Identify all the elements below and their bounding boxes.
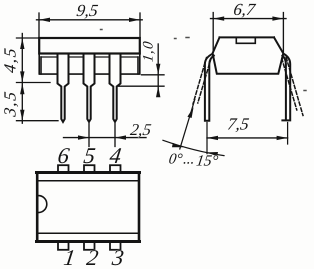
pin label 5: [82, 143, 97, 168]
plan view pin 3 stub: [110, 242, 121, 250]
angle arc right arrow: [207, 152, 218, 156]
dimension 4,5 bottom arrow: [20, 71, 24, 82]
end view body notch: [236, 37, 255, 43]
plan view bottom seam line: [38, 232, 138, 234]
side view dimension 9,5 line: [37, 19, 143, 21]
angle label dots: [182, 152, 195, 168]
side view dimension 9,5 label: [75, 1, 99, 20]
side view pin 1 (wide+narrow): [58, 54, 69, 122]
dimension 6,7 label: [232, 0, 257, 19]
angle ray arrowhead: [187, 107, 193, 118]
svg-text:1,0: 1,0: [141, 40, 157, 63]
angle arc: [163, 140, 224, 155]
side view base ledge line: [41, 56, 138, 58]
side view left end wall: [39, 54, 41, 75]
end view right pin splayed dashed lines: [282, 58, 303, 116]
end view body outline: [213, 37, 284, 73]
pin label 3: [110, 245, 126, 269]
svg-text:6,7: 6,7: [232, 0, 257, 19]
side view pin 3 (wide+narrow): [110, 54, 121, 122]
svg-text:0°: 0°: [168, 152, 184, 168]
plan view pin 6 stub: [58, 165, 69, 172]
dimension 1,0 upper arrow: [156, 64, 160, 75]
plan view pin 1 stub: [58, 242, 69, 250]
dimension 7,5 label: [226, 115, 250, 134]
side view left dimension line: [21, 34, 23, 124]
dimension 3,5 label: [1, 89, 20, 119]
angle label 15: [195, 153, 219, 170]
side view pin 2 (wide+narrow): [84, 54, 95, 122]
pin label 4: [108, 143, 123, 168]
dimension 1,0 lower arrow: [156, 86, 160, 97]
plan view top seam line: [38, 180, 138, 182]
angle arc left arrow: [172, 143, 183, 147]
scan specks: [101, 30, 307, 91]
side view base web line: [40, 73, 139, 75]
dimension 6,7 right arrow: [272, 16, 283, 20]
end view 7,5 dimension line: [207, 137, 288, 139]
plan view pin1 index notch: [38, 196, 47, 213]
end view right pin: [282, 54, 290, 121]
dimension 4,5 label: [1, 45, 20, 74]
end view 7,5 right pin extension: [287, 123, 289, 145]
dimension 2,5 label: [129, 120, 152, 139]
angle 0 degree ray (left pin extension): [206, 123, 208, 154]
svg-text:4,5: 4,5: [1, 45, 20, 74]
pin label 2: [85, 245, 100, 269]
end view dimension 6,7 extension lines: [213, 13, 283, 53]
angle 15 degree ray: [180, 100, 195, 150]
end view left pin splayed dashed lines: [193, 58, 211, 105]
dimension 3,5 top arrow: [20, 83, 24, 94]
dimension 2,5 left arrow: [78, 135, 89, 139]
svg-text:...: ...: [182, 152, 195, 168]
side view left extension lines for 4,5 and 3,5: [17, 38, 59, 121]
side view package body: [39, 38, 140, 54]
end view dimension 6,7 line: [211, 18, 287, 20]
dimension 3,5 bottom arrow: [20, 110, 24, 121]
svg-text:2,5: 2,5: [129, 120, 152, 139]
pin label 1: [62, 245, 77, 269]
svg-text:9,5: 9,5: [75, 1, 99, 20]
side view right end wall: [138, 54, 140, 75]
svg-text:15°: 15°: [195, 153, 219, 170]
dimension 1,0 label: [141, 40, 157, 63]
svg-text:7,5: 7,5: [226, 115, 250, 134]
dimension 7,5 right arrow: [277, 136, 288, 140]
svg-text:3,5: 3,5: [1, 89, 20, 119]
end view left pin: [205, 54, 214, 121]
dimension 2,5 right arrow: [115, 135, 126, 139]
side view 2,5 extension lines below pins: [89, 124, 115, 147]
plan view body: [37, 172, 139, 241]
pin label 6: [56, 143, 71, 168]
dimension 4,5 top arrow: [20, 38, 24, 49]
side view dimension 9,5 extension lines: [39, 13, 140, 37]
side view right extension lines for 1,0: [119, 75, 165, 86]
side view dimension 9,5 left arrow: [39, 18, 50, 22]
plan view pin 4 stub: [110, 165, 121, 172]
plan view pin 5 stub: [84, 165, 95, 172]
dimension 7,5 left arrow: [207, 136, 218, 140]
side view dimension 9,5 right arrow: [129, 18, 140, 22]
plan view pin 2 stub: [84, 242, 95, 250]
side view 1,0 dimension line: [157, 44, 159, 96]
side view 2,5 dimension line: [64, 137, 147, 139]
dimension 6,7 left arrow: [213, 16, 224, 20]
angle label 0: [168, 152, 184, 168]
